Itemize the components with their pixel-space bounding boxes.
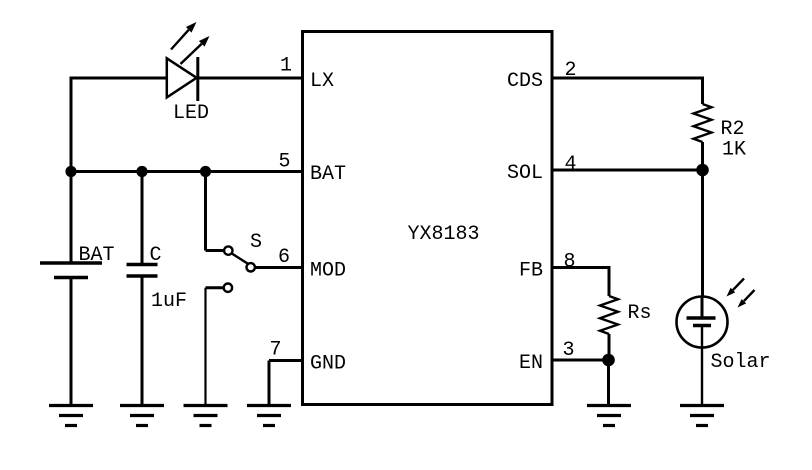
svg-text:1: 1 [280,55,292,78]
wire pin 8 FB horizontal [552,266,609,269]
wire BAT rail [70,170,303,173]
wire R2 bottom to SOL node [701,142,704,170]
node junction BAT/switch [200,166,211,177]
capacitor C bottom plate [127,274,158,278]
ground under EN node [587,406,631,426]
node junction BAT/battery [65,166,76,177]
switch S terminal circle (common) [224,246,232,254]
pin number 3 [562,339,574,362]
solar cell positive plate [687,316,716,319]
svg-text:1K: 1K [722,139,746,162]
wire LED anode to LX branch [71,77,167,80]
solar cell inner top lead [701,297,704,318]
battery BAT bottom lead [70,278,73,407]
resistor Rs zigzag [600,296,618,334]
resistor R2 value 1K [722,139,746,162]
switch S label [250,231,262,254]
LED label [173,102,209,125]
wire ground drop below switch [204,288,206,406]
LED arrow 1 [171,22,197,50]
ground under capacitor [120,406,164,426]
pin 5 label BAT [310,163,346,186]
ground under switch [184,406,228,426]
svg-text:C: C [150,244,162,267]
capacitor value 1uF [151,290,187,313]
LED D1 cathode bar [196,57,199,101]
capacitor C bottom lead [141,276,144,406]
wire left drop from LED line to BAT rail [70,77,73,172]
wire from open terminal to ground drop [206,286,224,289]
wire EN node to ground [607,360,610,406]
pin number 4 [564,153,576,176]
pin number 8 [563,251,575,274]
svg-text:8: 8 [563,251,575,274]
solar label [711,351,771,374]
resistor R2 zigzag [694,104,712,142]
ground under battery [49,406,93,426]
pin 4 label SOL [507,162,543,185]
svg-text:Solar: Solar [711,351,771,374]
pin 1 label LX [310,70,334,93]
wire pin 7 GND drop [268,361,271,407]
svg-text:GND: GND [310,353,346,376]
svg-text:LED: LED [173,102,209,125]
pin 6 label MOD [310,260,346,283]
wire FB corner drop to Rs [608,266,611,296]
node junction EN/Rs [602,354,615,367]
wire switch feed from BAT rail [204,172,207,251]
svg-text:MOD: MOD [310,260,346,283]
wire switch to pin 6 MOD [256,266,303,269]
node junction BAT/capacitor [136,166,147,177]
IC label YX8183 [408,223,480,246]
solar arrow 2 [738,290,755,308]
battery BAT positive plate [40,261,102,265]
battery BAT negative plate [54,276,88,280]
svg-text:BAT: BAT [79,244,115,267]
wire SOL node down to solar cell [701,170,704,297]
pin number 7 [269,339,281,362]
node junction SOL/R2/solar [696,164,709,177]
wire pin 3 EN horizontal [552,359,609,362]
resistor Rs label [628,302,652,325]
pin 7 label GND [310,353,346,376]
IC U1 YX8183 body [303,32,553,405]
solar cell negative plate [693,324,711,327]
pin number 1 [280,55,292,78]
wire pin 2 CDS horizontal [552,77,703,80]
svg-text:YX8183: YX8183 [408,223,480,246]
pin 3 label EN [519,352,543,375]
svg-text:EN: EN [519,352,543,375]
svg-text:SOL: SOL [507,162,543,185]
pin number 2 [564,59,576,82]
battery BAT label [79,244,115,267]
solar cell circle [677,297,728,348]
solar arrow 1 [727,279,745,297]
wire CDS corner drop to R2 [701,77,704,105]
wire Rs bottom to EN node [608,334,611,360]
svg-text:LX: LX [310,70,334,93]
switch S terminal circle (MOD side) [247,263,255,271]
switch S blade [232,254,248,264]
ground under solar cell [680,406,724,426]
capacitor C top plate [127,263,158,267]
svg-text:Rs: Rs [628,302,652,325]
ground under pin 7 [247,406,291,426]
wire pin 7 GND horizontal [269,359,303,362]
capacitor C top lead [141,172,144,265]
LED arrow 2 [181,36,210,64]
svg-text:7: 7 [269,339,281,362]
pin 8 label FB [519,260,543,283]
svg-text:4: 4 [564,153,576,176]
resistor R2 label [721,118,745,141]
svg-text:6: 6 [278,246,290,269]
svg-text:S: S [250,231,262,254]
pin number 5 [278,151,290,174]
pin number 6 [278,246,290,269]
capacitor C label [150,244,162,267]
svg-text:CDS: CDS [507,70,543,93]
svg-text:FB: FB [519,260,543,283]
wire to switch common terminal [206,249,224,252]
battery BAT top lead [70,172,73,264]
wire LED cathode to pin 1 LX [198,77,303,80]
switch S open terminal circle [224,284,232,292]
pin 2 label CDS [507,70,543,93]
svg-text:BAT: BAT [310,163,346,186]
solar cell bottom lead [701,326,703,407]
wire pin 4 SOL horizontal [552,169,703,172]
svg-text:1uF: 1uF [151,290,187,313]
LED D1 triangle [167,58,197,97]
